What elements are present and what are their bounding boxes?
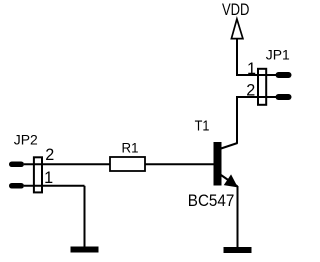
svg-text:2: 2 — [246, 81, 255, 99]
wire JP1 pin 2 (horizontal) — [236, 96, 276, 98]
svg-text:JP1: JP1 — [266, 46, 290, 62]
transistor T1 base bar — [214, 142, 222, 186]
wire JP2 pin 1 to ground (vertical) — [84, 186, 86, 248]
connector JP2 body — [34, 157, 42, 192]
connector JP2 pad pin 2 — [9, 162, 24, 168]
svg-text:VDD: VDD — [222, 1, 250, 19]
transistor T1 collector diagonal — [221, 143, 238, 149]
transistor T1 emitter arrowhead — [225, 175, 237, 187]
wire VDD symbol to JP1 pin 1 corner (vertical) — [236, 38, 238, 75]
wire JP2 pin 2 to resistor R1 and transistor base — [24, 163, 214, 165]
connector JP1 body — [258, 69, 266, 105]
svg-text:1: 1 — [247, 60, 256, 78]
wire JP1 pin 2 to transistor collector (vertical) — [236, 97, 238, 144]
connector JP1 pad pin 2 — [276, 94, 292, 100]
svg-text:R1: R1 — [122, 141, 139, 156]
connector JP2 pad pin 1 — [9, 183, 24, 189]
svg-text:1: 1 — [44, 169, 53, 187]
transistor T1 emitter diagonal — [221, 175, 238, 187]
wire JP2 pin 1 (horizontal) — [24, 185, 85, 187]
svg-text:T1: T1 — [195, 118, 210, 134]
wire transistor emitter to ground (vertical) — [237, 186, 239, 248]
connector JP1 pad pin 1 — [276, 72, 292, 78]
wire corner to JP1 pin 1 (horizontal) — [236, 74, 276, 76]
power symbol VDD (open arrow) — [231, 19, 243, 39]
ground symbol at transistor emitter — [224, 247, 252, 253]
svg-text:BC547: BC547 — [188, 191, 235, 210]
resistor R1 body — [110, 157, 145, 171]
svg-text:2: 2 — [45, 146, 54, 164]
ground symbol at JP2 pin 1 — [71, 247, 99, 253]
svg-text:JP2: JP2 — [14, 131, 38, 147]
